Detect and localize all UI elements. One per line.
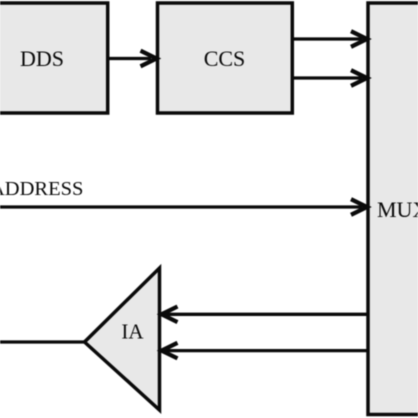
svg-text:CCS: CCS	[204, 46, 246, 71]
svg-text:MUX: MUX	[377, 197, 418, 222]
svg-text:DDS: DDS	[20, 46, 64, 71]
svg-text:ADDRESS: ADDRESS	[0, 178, 83, 200]
svg-text:IA: IA	[121, 319, 144, 343]
